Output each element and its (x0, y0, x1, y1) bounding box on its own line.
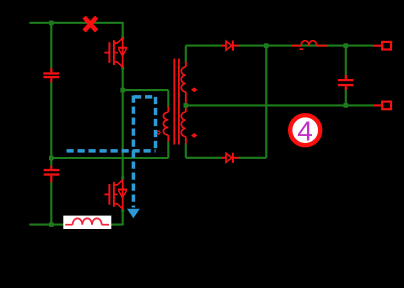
wire half-bridge leg bottom (122, 209, 124, 224)
transformer T1 primary polarity dot (157, 131, 161, 134)
capacitor C1 upper bus cap (43, 68, 59, 82)
wire D2 riser vertical (265, 46, 267, 158)
junction node rectifier output (264, 43, 269, 48)
transformer T1 secondary bottom polarity dot (191, 133, 197, 138)
wire output cap branch lower (345, 90, 347, 106)
junction node cap midpoint (49, 156, 54, 161)
transformer T1 primary winding (163, 107, 168, 142)
junction node filter cap top (344, 43, 349, 48)
wire bottom rail DC- (29, 224, 123, 226)
wire cap midpoint to primary bottom (51, 157, 168, 159)
wire secondary top lead (185, 46, 187, 62)
junction node center tap (184, 103, 189, 108)
diode D1 top rectifier (221, 41, 238, 51)
step marker circled 4 (290, 115, 320, 146)
svg-text:4: 4 (297, 116, 313, 147)
wire output return rail (186, 104, 373, 106)
highlight box around resonant inductor (63, 216, 111, 229)
transformer T1 secondary top polarity dot (191, 87, 197, 92)
wire half-bridge leg upper (122, 23, 124, 38)
node Q2 drain dot (121, 177, 124, 180)
transistor Q2 low-side MOSFET (104, 179, 127, 209)
wire bottom secondary to D2 (186, 157, 222, 159)
node Q1 drain dot (121, 36, 124, 39)
capacitor C2 lower bus cap (44, 166, 60, 183)
wire switch node to primary top (123, 89, 169, 91)
wire top rail DC+ (29, 22, 123, 24)
current path blue dashed bottom segment (67, 149, 156, 153)
inductor Lr resonant inductor (65, 218, 109, 224)
wire secondary output top rail right (238, 45, 373, 47)
wire primary bottom lead (167, 141, 169, 158)
wire output cap branch upper (345, 46, 347, 76)
transistor Q1 high-side MOSFET (104, 38, 127, 68)
transformer T1 secondary bottom winding (181, 108, 186, 144)
current path blue dashed top segment (134, 95, 154, 99)
terminal output negative (373, 102, 391, 110)
wire left bus vertical middle (50, 82, 52, 166)
junction node filter cap bottom (344, 103, 349, 108)
wire half-bridge leg mid (122, 68, 124, 180)
junction node DC+ left (49, 21, 54, 26)
wire left bus vertical upper (50, 23, 52, 69)
current path blue dashed down leg (132, 96, 136, 208)
fault X mark on DC+ rail (84, 17, 97, 31)
current path arrow head (127, 209, 140, 219)
current path blue dashed right riser (154, 97, 158, 149)
wire secondary output top rail left (186, 45, 222, 47)
node Q1 source dot (121, 67, 124, 70)
wire primary top lead (167, 90, 169, 107)
diode D2 bottom rectifier (221, 153, 238, 163)
capacitor C3 output filter cap (338, 75, 354, 90)
transformer T1 secondary top winding (181, 62, 186, 104)
transformer T1 core (173, 59, 179, 145)
wire D2 to riser (238, 157, 266, 159)
terminal output positive (373, 42, 391, 50)
junction node switch node (120, 88, 125, 93)
wire secondary bottom lead (185, 143, 187, 158)
node Q2 source dot (121, 209, 124, 212)
wire left bus vertical lower (50, 182, 52, 225)
inductor L1 output filter (292, 41, 327, 50)
junction node DC- left (49, 222, 54, 227)
